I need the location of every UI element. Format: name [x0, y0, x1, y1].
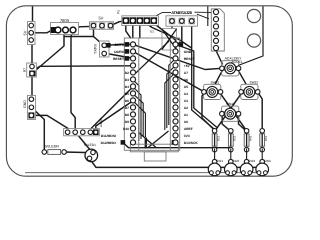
- svg-text:TX/RX: TX/RX: [94, 43, 98, 54]
- svg-text:R51: R51: [264, 135, 268, 141]
- svg-text:ATMEGA328: ATMEGA328: [171, 10, 192, 15]
- svg-text:D12/MISO: D12/MISO: [101, 141, 117, 145]
- svg-text:5VLEDR: 5VLEDR: [45, 145, 59, 149]
- svg-text:D13/SCK: D13/SCK: [184, 141, 199, 145]
- svg-text:RESET: RESET: [113, 57, 124, 61]
- svg-text:AREF: AREF: [184, 127, 193, 131]
- svg-text:SW2: SW2: [233, 159, 240, 163]
- svg-text:+5V: +5V: [184, 64, 191, 68]
- svg-text:SW21: SW21: [211, 80, 220, 84]
- svg-text:7805: 7805: [60, 18, 70, 23]
- svg-text:A0: A0: [184, 120, 188, 124]
- svg-text:SW3: SW3: [248, 159, 255, 163]
- svg-text:A1: A1: [184, 113, 188, 117]
- svg-text:U1: U1: [150, 30, 154, 34]
- svg-text:R41: R41: [249, 135, 253, 141]
- svg-text:D8: D8: [125, 113, 129, 117]
- svg-text:A2: A2: [184, 106, 188, 110]
- svg-text:D4: D4: [125, 85, 129, 89]
- svg-text:D11/MOSI: D11/MOSI: [101, 134, 116, 138]
- svg-text:R21: R21: [217, 135, 221, 141]
- svg-text:D9: D9: [125, 120, 129, 124]
- svg-text:5VLED1: 5VLED1: [84, 143, 96, 147]
- svg-text:A7: A7: [184, 71, 188, 75]
- svg-text:5V: 5V: [23, 30, 28, 35]
- svg-text:D6: D6: [125, 99, 129, 103]
- svg-text:A6: A6: [184, 78, 188, 82]
- svg-text:A4: A4: [184, 92, 188, 96]
- svg-text:BT: BT: [22, 68, 26, 72]
- svg-text:D0/RX: D0/RX: [114, 50, 125, 54]
- svg-text:SW31: SW31: [250, 80, 259, 84]
- svg-text:D10: D10: [123, 127, 129, 131]
- svg-text:3V3: 3V3: [184, 134, 190, 138]
- svg-text:D1/TX: D1/TX: [115, 43, 125, 47]
- svg-text:SW1: SW1: [216, 159, 223, 163]
- svg-text:A5: A5: [184, 85, 188, 89]
- svg-text:A4/A5: A4/A5: [99, 118, 103, 127]
- svg-text:D7: D7: [125, 106, 129, 110]
- svg-text:GND: GND: [23, 100, 27, 108]
- svg-text:SW41: SW41: [226, 102, 235, 106]
- svg-text:GND: GND: [184, 50, 192, 54]
- svg-text:RESET: RESET: [184, 57, 195, 61]
- svg-text:A3: A3: [184, 99, 188, 103]
- svg-text:ACCEL: ACCEL: [231, 60, 242, 64]
- svg-text:R31: R31: [233, 135, 237, 141]
- svg-text:P1: P1: [117, 10, 121, 14]
- svg-text:SW4: SW4: [264, 159, 271, 163]
- svg-text:D3: D3: [125, 78, 129, 82]
- svg-text:5V: 5V: [99, 16, 104, 21]
- svg-text:D5: D5: [125, 92, 129, 96]
- svg-text:D2: D2: [125, 71, 129, 75]
